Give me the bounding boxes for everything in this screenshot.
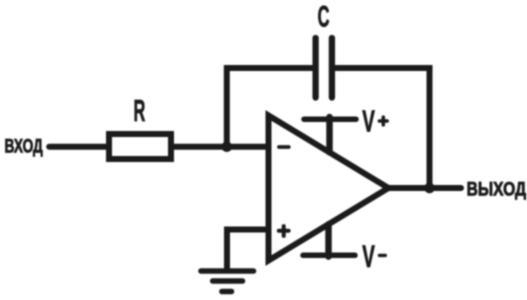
svg-text:ВХОД: ВХОД: [5, 137, 43, 158]
capacitor C left plate: [312, 38, 318, 98]
V+ supply stub into op-amp top edge: [326, 117, 333, 152]
node: junction dot output/feedback: [424, 183, 435, 194]
svg-text:C: C: [318, 0, 330, 33]
wire: output from op-amp to ВЫХОД terminal: [389, 185, 462, 191]
wire: input from ВХОД terminal through R to inverting input: [49, 144, 268, 150]
wire: feedback vertical + top run (left of C): [227, 68, 313, 147]
node: junction dot input/feedback: [222, 141, 233, 152]
ground (three bars): [201, 271, 254, 292]
svg-text:V: V: [362, 238, 375, 274]
wire: non-inverting input to ground: [227, 230, 269, 272]
svg-text:ВЫХОД: ВЫХОД: [467, 179, 527, 200]
capacitor C right plate: [329, 38, 335, 98]
V+ supply bar: [304, 116, 356, 122]
resistor R: [109, 134, 171, 159]
op-amp inverting input symbol (minus): [279, 145, 289, 149]
svg-text:R: R: [134, 94, 146, 128]
wire: top run right of C down to output node: [335, 68, 430, 188]
V- supply stub into op-amp bottom edge: [325, 224, 332, 256]
op-amp non-inverting input symbol (plus): [279, 226, 289, 236]
V- supply bar: [303, 253, 355, 259]
svg-text:V: V: [362, 103, 375, 138]
op-amp U1 (triangle body): [269, 116, 389, 261]
